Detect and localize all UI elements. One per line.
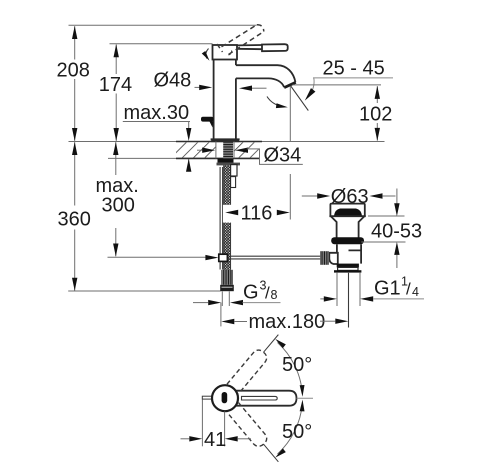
- faucet body: [214, 60, 236, 139]
- D34 leader step: [260, 149, 303, 165]
- svg-text:max.180: max.180: [249, 311, 326, 333]
- flange underside: [329, 215, 365, 217]
- rod port connector: [329, 253, 338, 264]
- dimension 360 line: [74, 142, 76, 205]
- spout outlet face: [284, 82, 296, 87]
- hose crimp sleeves: [231, 165, 237, 176]
- drain valve body: [337, 244, 361, 263]
- spout swing arc arrow: [267, 97, 283, 107]
- faucet base: [211, 139, 240, 141]
- shank locknut: [218, 158, 234, 162]
- deck bottom line: [108, 157, 260, 159]
- handle pin stub: [202, 396, 212, 399]
- drain body lower bands: [337, 264, 359, 268]
- svg-text:41: 41: [204, 429, 226, 451]
- lower 50 arc: [278, 404, 303, 454]
- handle circle: [212, 385, 238, 411]
- drain axis line: [348, 273, 350, 328]
- dimension 102 line: [376, 86, 378, 103]
- svg-text:50°: 50°: [282, 421, 312, 443]
- cap swing arc arrow: [206, 49, 209, 59]
- drain neck shoulders: [331, 216, 365, 237]
- faucet cap (cartridge housing): [213, 45, 238, 60]
- max.300 extension to rod with arrow: [108, 256, 208, 258]
- svg-text:max.30: max.30: [124, 102, 190, 124]
- shank washer: [217, 163, 241, 166]
- lever inner slot: [242, 396, 278, 400]
- dimension max.180: [221, 319, 234, 324]
- hose end extension line: [68, 290, 220, 292]
- solid lever handle: [237, 45, 262, 49]
- hose side lines: [224, 165, 231, 269]
- drain flange cylinder: [330, 204, 364, 216]
- svg-text:Ø48: Ø48: [154, 70, 192, 92]
- braided supply hose: [224, 165, 231, 269]
- threaded shank: [223, 142, 233, 159]
- svg-text:208: 208: [57, 60, 90, 82]
- extension line 174 top: [110, 43, 213, 45]
- pop-up rod coupling: [219, 254, 228, 261]
- drain o-ring: [331, 237, 364, 244]
- G1 1/4 arrows: [320, 298, 324, 300]
- drain plug lid: [334, 209, 362, 216]
- svg-text:4: 4: [412, 285, 419, 299]
- leader from 25-45 to stream: [308, 78, 314, 97]
- dashed open lever: [217, 25, 264, 55]
- deck hatching left: [176, 142, 216, 157]
- reference centerline: [297, 397, 314, 399]
- mounting hole edges: [216, 142, 234, 159]
- supply pipe tails: [222, 291, 229, 306]
- outlet plane extension line: [293, 84, 382, 86]
- svg-text:8: 8: [271, 288, 278, 302]
- dimension D63 arrows: [302, 195, 318, 197]
- deck hatching right: [235, 142, 260, 157]
- svg-text:Ø63: Ø63: [331, 186, 369, 208]
- dimension max.30 arrows: [188, 122, 190, 129]
- spout: [236, 65, 295, 82]
- svg-text:25 - 45: 25 - 45: [323, 58, 385, 80]
- dimension 41: [201, 400, 203, 447]
- svg-text:/: /: [265, 283, 270, 302]
- G3/8 hose fitting knurl: [221, 270, 233, 285]
- lever bar top view: [236, 391, 297, 406]
- svg-text:50°: 50°: [282, 354, 312, 376]
- svg-text:360: 360: [58, 209, 91, 231]
- svg-text:102: 102: [359, 103, 392, 125]
- extension line below hose: [220, 303, 222, 327]
- pop-up rod vertical: [220, 167, 223, 270]
- braid gap for 116 dimension: [223, 205, 232, 223]
- svg-text:G1: G1: [374, 278, 401, 300]
- svg-text:Ø34: Ø34: [264, 145, 302, 167]
- pop-up rod knob (knurled): [320, 251, 329, 265]
- dimension 116: [225, 210, 238, 215]
- upper 50 arc: [278, 343, 303, 393]
- dashed lever -50: [227, 403, 284, 467]
- svg-text:300: 300: [102, 195, 135, 217]
- temperature limiter tab: [201, 117, 214, 122]
- svg-text:G: G: [243, 281, 259, 303]
- cap inner dashed pivot arc: [229, 51, 232, 56]
- horizontal pop-up rod to drain: [228, 256, 321, 259]
- handle hole pill: [222, 392, 228, 403]
- svg-text:116: 116: [241, 203, 273, 225]
- stream direction line: [291, 86, 309, 111]
- svg-text:174: 174: [99, 74, 132, 96]
- outlet vertical extension line: [289, 86, 291, 219]
- deck top extension line: [69, 141, 385, 143]
- G3/8 arrows: [193, 302, 208, 304]
- dimension 40-53: [368, 215, 405, 217]
- dashed lever +50: [227, 330, 284, 394]
- dimension 174 line: [115, 45, 117, 75]
- drain tailpipe: [337, 273, 360, 306]
- dimension 208 line: [74, 26, 76, 59]
- dimension D34 arrows at hole: [197, 149, 203, 151]
- lever blade: [262, 44, 288, 51]
- dimension max.300 line: [115, 142, 117, 175]
- extension line top (lever open max height): [69, 24, 257, 26]
- svg-text:40-53: 40-53: [371, 221, 422, 243]
- svg-text:/: /: [406, 280, 411, 299]
